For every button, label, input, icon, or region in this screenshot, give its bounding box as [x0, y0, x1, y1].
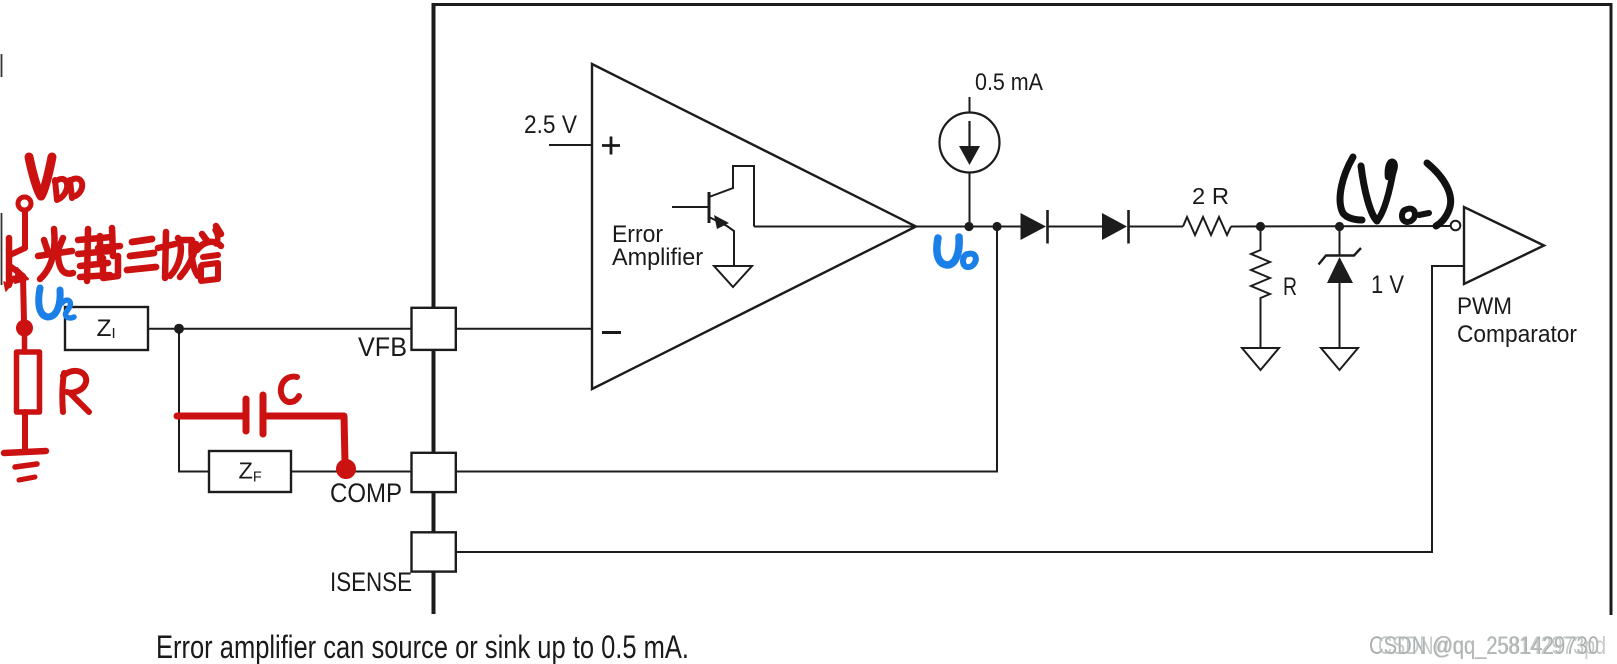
- wire D1 to D2: [1048, 226, 1103, 228]
- node A junction dot: [174, 324, 184, 334]
- wire VFB row: Z_I output to VFB pin: [148, 328, 412, 330]
- svg-text:R: R: [1283, 273, 1297, 301]
- current source I1 stub above: [969, 97, 971, 113]
- chinese annotation guan (管): [202, 234, 208, 242]
- label Uo blue handwritten: [937, 237, 959, 265]
- capacitor C red left wire: [177, 413, 242, 420]
- resistor R vertical: [1251, 227, 1270, 349]
- handwritten (Vo-) open paren: [1340, 157, 1362, 220]
- node Uo dot 1: [964, 222, 973, 231]
- wire VFB pin to op-amp inverting input: [456, 328, 592, 330]
- phototransistor emitter arrowhead: [15, 268, 28, 283]
- Q1 emitter path: [709, 217, 734, 266]
- resistor 2R zigzag: [1183, 217, 1231, 235]
- chinese annotation ou (耦) left radical: [78, 237, 112, 240]
- minus input sign: [602, 331, 621, 334]
- ground under R: [1242, 348, 1279, 370]
- svg-text:2 R: 2 R: [1192, 183, 1229, 209]
- pin square COMP: [412, 453, 456, 492]
- node dot at zener: [1335, 222, 1344, 231]
- plus input sign: [602, 137, 620, 155]
- PWM comparator input bubble: [1451, 221, 1461, 231]
- wire 2R to PWM comparator input: [1231, 225, 1451, 228]
- ground under zener: [1321, 348, 1358, 370]
- chinese annotation guang (光): [44, 240, 48, 252]
- internal transistor Q1: [672, 166, 754, 266]
- op-amp error amplifier triangle: [592, 64, 916, 389]
- pin square VFB: [412, 308, 456, 350]
- pin square ISENSE: [412, 532, 456, 571]
- node dot at R: [1256, 222, 1265, 231]
- page edge artifact marks: [1, 54, 3, 285]
- Q1 base wire: [672, 206, 709, 208]
- Q1 collector path: [709, 166, 754, 227]
- handwritten (Vo-) o subscript: [1402, 209, 1415, 222]
- Q1 emitter arrowhead: [714, 215, 729, 229]
- red junction dot at COMP: [337, 460, 355, 478]
- diode D2: [1102, 213, 1127, 240]
- ground under Q1: [714, 266, 752, 287]
- handwritten (Vo-) V: [1361, 166, 1377, 221]
- chinese annotation ou (耦) right part: [97, 236, 104, 260]
- wire node A down to Z_F input: [179, 329, 209, 472]
- IC box left border: [432, 3, 436, 614]
- Q1 base bar: [708, 192, 711, 223]
- wire emitter down to node Ub: [23, 277, 24, 322]
- capacitor C red plate 1: [243, 399, 250, 431]
- svg-text:PWM: PWM: [1457, 293, 1512, 320]
- label C red handwritten: [281, 377, 299, 402]
- chinese annotation san (三): [132, 239, 152, 242]
- wire node to resistor R2: [22, 334, 28, 352]
- diode D1: [1021, 213, 1047, 240]
- wire ISENSE to PWM comparator lower input: [456, 266, 1464, 552]
- zener diode D3 1V: [1339, 227, 1341, 257]
- phototransistor Q2: [6, 238, 13, 285]
- node Uo dot 2: [992, 222, 1001, 231]
- ground red handwritten: [4, 451, 46, 453]
- IC box top border: [432, 3, 1613, 6]
- svg-text:2.5 V: 2.5 V: [524, 111, 577, 139]
- resistor R2 red rectangle: [17, 352, 40, 412]
- svg-text:0.5 mA: 0.5 mA: [975, 69, 1043, 96]
- IC box right border: [1610, 3, 1613, 615]
- svg-text:Amplifier: Amplifier: [612, 244, 703, 271]
- watermark CSDN: [1369, 632, 1606, 660]
- svg-text:ISENSE: ISENSE: [330, 567, 412, 597]
- wire COMP feedback to error amp output: [456, 227, 997, 472]
- capacitor C red plate 2: [260, 395, 267, 434]
- svg-text:VFB: VFB: [358, 332, 407, 362]
- phototransistor light arrowhead: [4, 282, 10, 291]
- current source I1 circle: [940, 113, 1000, 173]
- label VDD handwritten: [29, 157, 41, 196]
- wire current source to output node: [969, 173, 971, 227]
- svg-text:COMP: COMP: [330, 478, 402, 508]
- wire VDD to phototransistor collector: [22, 211, 28, 248]
- svg-text:CSDN@qq_258142973pd: CSDN@qq_258142973pd: [1378, 632, 1606, 660]
- handwritten (Vo-) minus: [1419, 213, 1429, 215]
- svg-text:Comparator: Comparator: [1457, 321, 1577, 348]
- terminal VDD circle: [18, 197, 31, 210]
- label Ub blue handwritten: [39, 288, 60, 317]
- wire 2.5V reference stub: [549, 144, 592, 146]
- wire Q1 collector to op-amp output apex: [754, 226, 916, 228]
- current source I1 arrow: [968, 121, 970, 147]
- label R red handwritten: [62, 373, 64, 412]
- wire Z_F output to COMP pin: [291, 471, 412, 473]
- svg-text:1 V: 1 V: [1371, 271, 1404, 299]
- svg-text:Error amplifier can source or: Error amplifier can source or sink up to…: [156, 629, 689, 664]
- impedance box ZF: [209, 451, 291, 492]
- chinese annotation ji (极): [165, 232, 166, 278]
- wire resistor to ground: [22, 412, 28, 452]
- wire op-amp output to diode D1: [916, 226, 1021, 228]
- PWM comparator triangle: [1464, 207, 1544, 284]
- node Ub red junction dot: [17, 321, 32, 336]
- handwritten (Vo-) close paren: [1427, 163, 1451, 226]
- capacitor C red right wire to COMP: [267, 416, 345, 462]
- impedance box ZI: [65, 307, 148, 350]
- wire D2 to resistor 2R: [1129, 226, 1184, 228]
